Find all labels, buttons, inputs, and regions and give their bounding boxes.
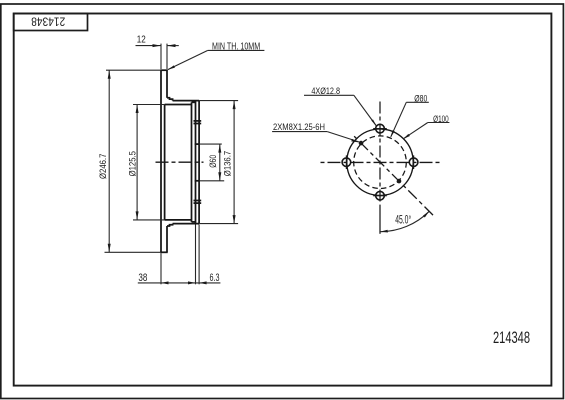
flange OD bottom edge	[173, 223, 200, 225]
hat outboard face	[164, 105, 166, 220]
ext line dia136.7 bottom	[199, 223, 238, 225]
ext line 12 left	[160, 44, 162, 69]
ext line dia136.7 top	[199, 100, 238, 102]
svg-text:Ø246.7: Ø246.7	[98, 154, 108, 179]
ext line dia125.5 bottom	[133, 219, 165, 221]
arrow dia80	[391, 130, 395, 137]
arrow dia60 bottom	[218, 172, 221, 181]
ext line 12 right	[166, 44, 168, 69]
hat inner vertical	[191, 102, 193, 222]
underline dia80	[406, 101, 429, 103]
bolt hole top	[376, 124, 385, 133]
vertical centerline lower solid segment	[379, 205, 381, 234]
arrow 38 left	[161, 281, 169, 284]
svg-text:214348: 214348	[31, 15, 65, 29]
svg-text:12: 12	[137, 35, 146, 46]
arrow dia100	[403, 134, 410, 139]
arrow dia60 top	[218, 144, 221, 153]
svg-text:2XM8X1.25-6H: 2XM8X1.25-6H	[273, 122, 325, 132]
centerline left view	[156, 161, 204, 163]
svg-text:MIN TH. 10MM: MIN TH. 10MM	[212, 41, 260, 52]
arrow on arc bottom	[380, 230, 388, 233]
svg-text:38: 38	[138, 272, 147, 284]
arrow dia136.7 top	[233, 101, 236, 110]
thread mark bottom a	[194, 200, 202, 202]
arrow min th leader	[168, 65, 175, 69]
tick right hole	[413, 155, 415, 169]
dashed circle dia 80	[354, 136, 407, 189]
tick left hole	[345, 155, 347, 169]
hat inner connect top	[192, 101, 196, 103]
thread mark top b	[194, 123, 202, 125]
45 deg arc	[380, 211, 429, 231]
leader dia80	[391, 102, 407, 137]
arrow dia246.7 bottom	[108, 244, 111, 253]
disc left face	[160, 70, 162, 252]
thread mark top a	[194, 120, 202, 122]
ext line dia125.5 top	[133, 104, 165, 106]
arrow 38 right	[188, 281, 196, 284]
threaded hole dot upper-left	[359, 141, 364, 146]
underline dia100	[428, 122, 450, 124]
min th underline	[208, 49, 265, 51]
underline 2XM8	[272, 131, 327, 133]
disc right face lower	[166, 226, 168, 252]
hub mounting face	[198, 101, 200, 224]
dim line 38 / 6.3	[138, 282, 221, 284]
svg-text:45.0°: 45.0°	[395, 215, 411, 227]
dim line 12 left seg	[136, 45, 162, 47]
diagonal 45deg centerline	[354, 136, 434, 216]
ext line dia60 top	[199, 143, 222, 145]
svg-text:6.3: 6.3	[210, 272, 220, 284]
bore bottom edge	[195, 180, 199, 182]
ext line 38 left	[160, 253, 162, 284]
leader 2XM8	[327, 132, 359, 142]
thread mark bottom b	[194, 202, 202, 204]
step bottom	[167, 224, 173, 226]
tick bottom hole	[373, 195, 387, 197]
arrow dia125.5 top	[136, 105, 139, 114]
dim line dia 125.5	[136, 105, 138, 220]
dim line 12 right seg	[167, 45, 179, 47]
bore top edge	[195, 143, 199, 145]
threaded hole dot lower-right	[397, 179, 402, 184]
leader dia100	[404, 123, 428, 139]
disc bottom edge	[160, 251, 168, 253]
ext line disc bottom (to dia 246.7)	[105, 251, 161, 253]
neck line bottom	[165, 219, 192, 221]
svg-text:4XØ12.8: 4XØ12.8	[311, 86, 340, 96]
arrow 6.3 right	[199, 281, 207, 284]
arrow 12 left	[153, 44, 162, 47]
arrow 2XM8	[351, 139, 359, 143]
dim line dia 136.7	[233, 101, 235, 224]
leader 4X dia12.8	[354, 95, 377, 126]
arrow dia246.7 top	[108, 70, 111, 79]
min th leader	[168, 50, 208, 69]
flange left face	[195, 101, 197, 224]
arrow dia125.5 bottom	[136, 211, 139, 220]
underline 4X dia12.8	[304, 94, 354, 96]
bolt hole right	[409, 158, 418, 167]
hat inner connect bottom	[192, 221, 196, 223]
bolt hole left	[342, 158, 351, 167]
dim line dia 60	[219, 144, 221, 181]
disc top edge	[160, 69, 168, 71]
bolt circle (solid, dia 100)	[347, 129, 413, 195]
arrow dia136.7 bottom	[233, 215, 236, 224]
neck line top	[165, 104, 192, 106]
svg-text:Ø60: Ø60	[208, 155, 218, 168]
dim line dia 246.7	[108, 70, 110, 252]
horizontal centerline	[319, 161, 441, 163]
ext line disc top (to dia 246.7)	[106, 69, 160, 71]
arrows left view	[108, 44, 236, 284]
svg-text:214348: 214348	[493, 328, 530, 347]
step top	[167, 98, 173, 101]
bolt hole bottom	[376, 191, 385, 200]
arrow 12 right	[167, 44, 176, 47]
svg-text:Ø136.7: Ø136.7	[222, 151, 232, 176]
disc right face upper	[166, 70, 168, 98]
title box	[14, 14, 88, 31]
ext line 6.3 right	[198, 225, 200, 285]
ext line dia60 bottom	[199, 180, 224, 182]
arrow 4X dia12.8	[371, 119, 376, 126]
svg-text:Ø125.5: Ø125.5	[128, 151, 138, 176]
ext line 6.3 left	[195, 225, 197, 285]
tick top hole	[373, 128, 387, 130]
arrow on arc top end	[423, 211, 429, 217]
vertical centerline	[379, 102, 381, 202]
flange OD top edge	[173, 100, 200, 102]
